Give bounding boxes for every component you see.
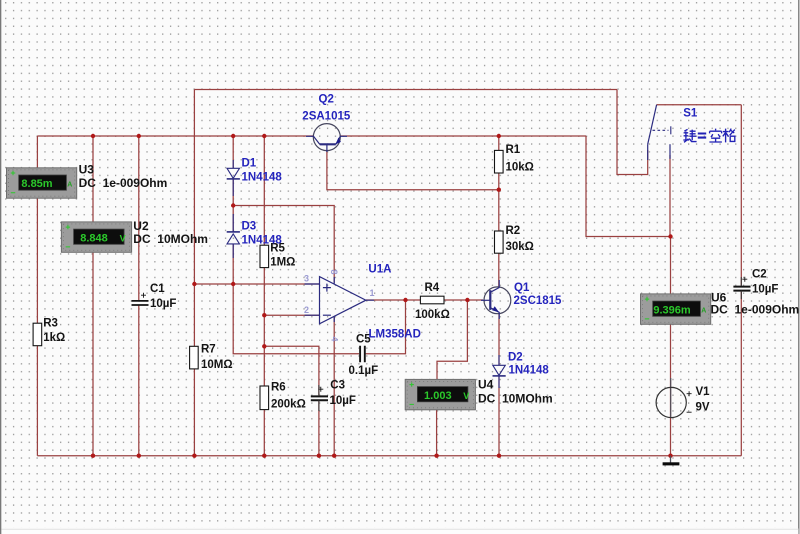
svg-text:1.003: 1.003 [424,390,452,402]
svg-text:9V: 9V [696,402,710,414]
svg-text:200kΩ: 200kΩ [271,399,306,411]
resistor R7 [190,346,199,369]
diode D1 [227,160,240,196]
wire Q1 emitter to D2 and rail [498,313,500,456]
wire C5 horizontal from pin3 node [233,284,405,354]
wire C1 column [138,136,140,456]
wire R4 right to Q1 base [444,299,483,301]
wire U4 bottom to rail [436,409,438,455]
svg-text:8.85m: 8.85m [21,178,52,190]
wire R1 column [498,136,500,190]
resistor R2 [495,231,504,253]
svg-text:R1: R1 [506,144,521,156]
wire R6 branch [263,346,265,455]
svg-text:Q2: Q2 [319,94,334,106]
svg-text:30kΩ: 30kΩ [506,241,534,253]
svg-text:2SA1015: 2SA1015 [302,111,351,123]
transistor Q2 (PNP 2SA1015) [306,124,347,152]
svg-text:U2: U2 [133,219,149,233]
multimeter U3 body [7,168,77,198]
wire top rail [194,89,617,91]
svg-text:4: 4 [330,337,340,342]
wire non-inverting input pin3 [194,283,319,285]
svg-text:C3: C3 [330,380,345,392]
wire diode chain column D1 D3 [232,136,234,284]
svg-text:U1A: U1A [368,264,391,276]
switch S1 [648,105,671,160]
wire S1 output contact down to U6 node [669,155,671,237]
svg-text:R6: R6 [271,382,286,394]
svg-text:2SC1815: 2SC1815 [514,295,563,307]
svg-text:10µF: 10µF [752,284,778,296]
svg-text:R4: R4 [425,282,440,294]
svg-text:1: 1 [370,288,375,298]
svg-text:1MΩ: 1MΩ [270,257,295,269]
svg-text:U3: U3 [79,163,95,177]
svg-text:Q1: Q1 [514,282,530,294]
svg-text:R3: R3 [43,318,58,330]
svg-text:0.1µF: 0.1µF [349,365,379,377]
capacitor C2 [733,287,750,291]
resistor R6 [260,386,269,410]
multimeter U6 body [641,294,711,324]
svg-text:S1: S1 [683,107,698,119]
resistor R1 [495,150,504,173]
wire op-amp output to R4 [366,299,420,301]
wire S1 top contact across to C2 column [657,104,742,106]
resistor R4 (horizontal) [420,296,444,304]
wire rail2 left segment [37,135,313,137]
wire rail2 end drop to U6 node [586,136,671,237]
svg-text:DC 1e-009Ohm: DC 1e-009Ohm [79,176,168,190]
svg-text:DC 1e-009Ohm: DC 1e-009Ohm [711,303,800,317]
transistor Q1 (NPN 2SC1815) [481,280,511,319]
capacitor C3 [311,396,328,400]
svg-text:9.396m: 9.396m [653,304,691,316]
svg-text:U4: U4 [478,378,494,392]
svg-text:LM358AD: LM358AD [369,329,421,341]
svg-text:1kΩ: 1kΩ [43,332,65,344]
wire R2 column down to Q1 collector [498,190,500,288]
svg-text:10MΩ: 10MΩ [201,359,233,371]
svg-text:D3: D3 [242,221,257,233]
wire R5 column [263,136,265,346]
op-amp U1A (LM358AD) [305,277,375,324]
resistor R5 [260,245,269,267]
wire U2 column [92,136,94,456]
svg-text:C2: C2 [752,269,767,281]
multimeter U4 body [405,379,475,409]
wire left column U3/R3 [36,136,38,456]
svg-text:2: 2 [304,305,309,315]
wire op-amp V- pin4 to ground rail [333,317,335,456]
svg-text:10µF: 10µF [150,298,176,310]
svg-text:10µF: 10µF [330,395,356,407]
svg-text:8.848: 8.848 [80,232,108,244]
wire feedback node to C3 branch [264,346,319,455]
svg-text:1N4148: 1N4148 [242,235,283,247]
svg-text:C1: C1 [150,283,165,295]
wire U6 column to V1 and ground [670,237,672,456]
capacitor C5 (horizontal) [360,346,365,362]
diode D2 [493,355,506,388]
svg-text:100kΩ: 100kΩ [415,309,450,321]
wire inverting input pin2 [264,314,319,316]
svg-text:DC 10MOhm: DC 10MOhm [478,392,553,406]
label key = space (Chinese) [683,129,735,143]
svg-text:A: A [67,182,72,189]
wire C2 column [740,105,742,456]
svg-text:V: V [120,234,126,244]
battery V1 (9V DC source) [670,378,672,418]
svg-text:A: A [701,308,706,315]
wire S1 feed from top rail [617,90,648,175]
svg-text:10kΩ: 10kΩ [506,162,534,174]
svg-text:D1: D1 [242,158,257,170]
capacitor C1 [132,301,149,305]
diode D3 [227,214,240,258]
resistor R3 [33,323,42,346]
wire top-rail left drop to pin3 node and through R7 to bottom rail [193,90,195,456]
svg-text:V1: V1 [696,386,711,398]
svg-text:1N4148: 1N4148 [242,172,283,184]
wire Q2 base down and across to R1/R2 node [327,150,499,190]
multimeter U2 body [61,222,131,252]
svg-text:1N4148: 1N4148 [509,365,550,377]
svg-text:3: 3 [304,274,309,284]
ground symbol [670,456,672,463]
wire op-amp V+ pin8 feed [233,206,334,283]
svg-text:8: 8 [329,270,339,275]
wire R4 node down-left to U4 [437,300,467,380]
wire bottom rail [37,455,741,457]
wire rail2 right segment [340,135,586,137]
svg-text:V: V [463,391,469,401]
svg-text:R7: R7 [201,344,216,356]
svg-text:DC 10MOhm: DC 10MOhm [133,232,208,246]
svg-text:D2: D2 [508,352,523,364]
svg-text:R2: R2 [506,225,521,237]
